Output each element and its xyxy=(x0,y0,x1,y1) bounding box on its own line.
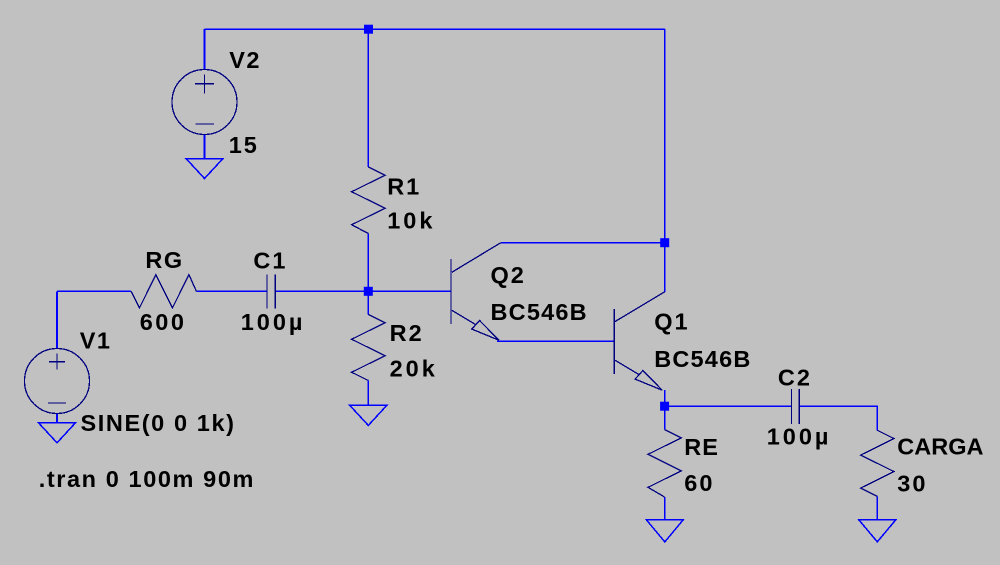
voltage source V2 circle xyxy=(172,70,237,135)
junction node top rail / R1 xyxy=(364,25,373,34)
wire V1 top xyxy=(56,291,58,348)
wire RE top xyxy=(664,406,666,429)
transistor Q1 collector xyxy=(615,292,665,322)
wire right rail xyxy=(664,29,666,292)
svg-text:15: 15 xyxy=(229,132,259,158)
svg-text:20k: 20k xyxy=(390,356,438,382)
ground under RE xyxy=(646,520,683,542)
resistor CARGA zigzag xyxy=(861,430,894,496)
svg-text:10k: 10k xyxy=(387,208,435,234)
wire R2 bottom xyxy=(367,381,369,406)
wire Q2 collector xyxy=(501,242,665,244)
wire V1 to RG xyxy=(57,290,131,292)
wire CARGA bottom xyxy=(876,496,878,519)
capacitor C2 plates xyxy=(791,389,799,424)
svg-text:RE: RE xyxy=(684,434,719,460)
wire V2 bottom xyxy=(204,135,206,159)
svg-text:C1: C1 xyxy=(253,248,287,274)
wire V2 top xyxy=(204,29,206,69)
svg-text:C2: C2 xyxy=(778,364,812,390)
V1 plus sign xyxy=(49,354,65,370)
svg-text:V2: V2 xyxy=(229,47,261,73)
transistor Q2 base bar xyxy=(450,259,452,324)
transistor Q1 emitter arrow xyxy=(635,371,662,391)
resistor RE zigzag xyxy=(648,430,681,497)
wire R1 bottom to node xyxy=(367,234,369,292)
svg-text:60: 60 xyxy=(684,470,714,496)
junction node Q2 collector / right rail xyxy=(660,238,669,247)
svg-text:CARGA: CARGA xyxy=(897,434,983,460)
svg-text:600: 600 xyxy=(140,309,187,335)
transistor Q2 collector xyxy=(452,243,501,273)
V2 minus sign xyxy=(196,123,215,125)
svg-text:BC546B: BC546B xyxy=(654,346,751,372)
capacitor C1 plates xyxy=(267,275,275,309)
svg-text:.tran 0 100m 90m: .tran 0 100m 90m xyxy=(39,466,255,492)
wire node to C2 xyxy=(665,405,792,407)
V2 plus sign xyxy=(195,75,214,94)
ground under V2 xyxy=(186,159,223,179)
svg-text:100µ: 100µ xyxy=(767,424,832,450)
ground under R2 xyxy=(350,405,387,425)
wire Q1 emitter down xyxy=(664,390,666,406)
svg-text:R1: R1 xyxy=(387,174,421,200)
resistor R2 zigzag xyxy=(352,315,385,381)
transistor Q1 base bar xyxy=(613,309,615,374)
junction node C1 / R1 / R2 / Q2 base xyxy=(364,287,373,296)
svg-text:R2: R2 xyxy=(390,320,424,346)
ground under V1 xyxy=(39,423,76,443)
resistor R1 zigzag xyxy=(352,167,385,234)
resistor RG zigzag xyxy=(131,275,196,308)
svg-text:SINE(0 0 1k): SINE(0 0 1k) xyxy=(81,410,236,436)
V1 minus sign xyxy=(48,402,66,404)
wire top rail xyxy=(205,28,665,30)
svg-text:BC546B: BC546B xyxy=(491,299,588,325)
junction node Q1 emitter / RE / C2 xyxy=(660,402,669,411)
wire RG to C1 xyxy=(196,290,267,292)
svg-text:RG: RG xyxy=(145,247,183,273)
svg-text:V1: V1 xyxy=(80,328,112,354)
svg-text:Q1: Q1 xyxy=(654,309,689,335)
svg-text:30: 30 xyxy=(897,471,927,497)
wire V1 bottom xyxy=(56,413,58,423)
wire Q2 emitter to Q1 base xyxy=(497,340,614,342)
transistor Q1 emitter xyxy=(615,360,639,374)
wire R2 top xyxy=(367,291,369,314)
ground under CARGA xyxy=(859,520,896,542)
svg-text:Q2: Q2 xyxy=(491,262,526,288)
transistor Q2 emitter arrow xyxy=(472,321,499,341)
wire RE bottom xyxy=(664,497,666,520)
svg-text:100µ: 100µ xyxy=(241,309,306,335)
wire C1 to Q2 base xyxy=(275,290,451,292)
wire C2 to CARGA xyxy=(799,406,877,430)
voltage source V1 circle xyxy=(25,349,90,414)
transistor Q2 emitter xyxy=(452,310,476,324)
wire R1 top xyxy=(367,29,369,167)
